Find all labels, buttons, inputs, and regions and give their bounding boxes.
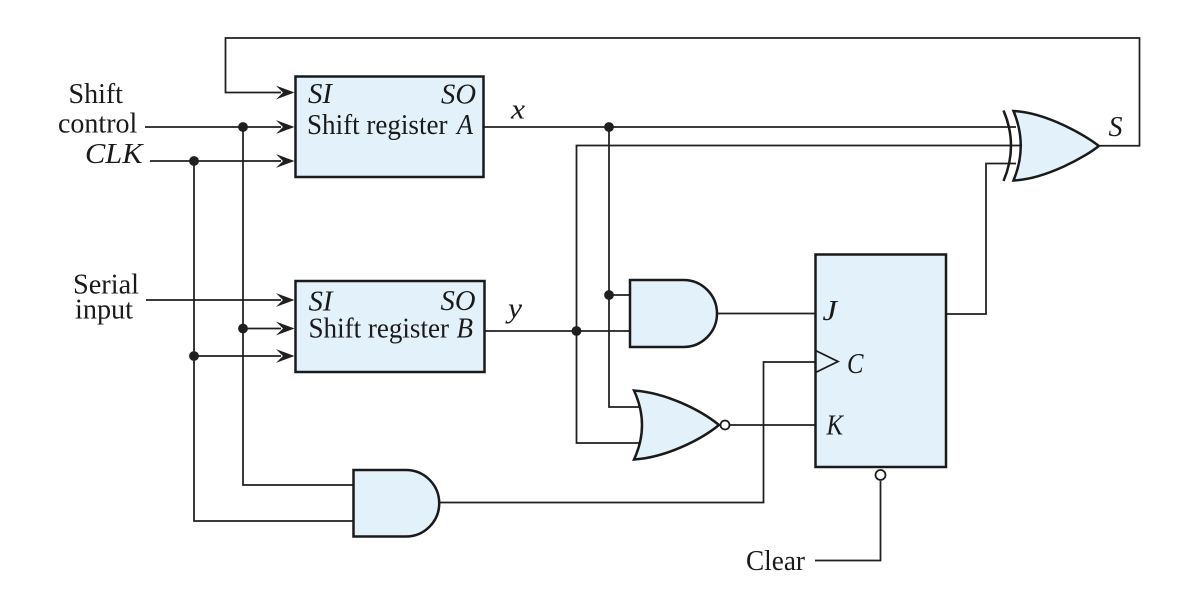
svg-text:control: control: [58, 109, 138, 140]
svg-text:Clear: Clear: [746, 546, 806, 577]
svg-text:input: input: [75, 295, 133, 326]
svg-text:K: K: [826, 411, 845, 442]
svg-text:C: C: [847, 349, 864, 380]
svg-text:x: x: [510, 95, 526, 126]
svg-text:Shift: Shift: [69, 79, 124, 110]
svg-text:Shift register: Shift register: [307, 110, 448, 141]
svg-text:A: A: [455, 110, 474, 141]
svg-text:y: y: [505, 294, 523, 325]
svg-text:CLK: CLK: [85, 139, 144, 170]
svg-text:Shift register: Shift register: [309, 314, 450, 345]
svg-text:SO: SO: [441, 80, 476, 111]
svg-text:S: S: [1109, 112, 1123, 143]
svg-text:SI: SI: [308, 79, 334, 110]
svg-text:SO: SO: [441, 286, 476, 317]
svg-text:J: J: [823, 296, 839, 327]
svg-text:B: B: [457, 314, 474, 345]
